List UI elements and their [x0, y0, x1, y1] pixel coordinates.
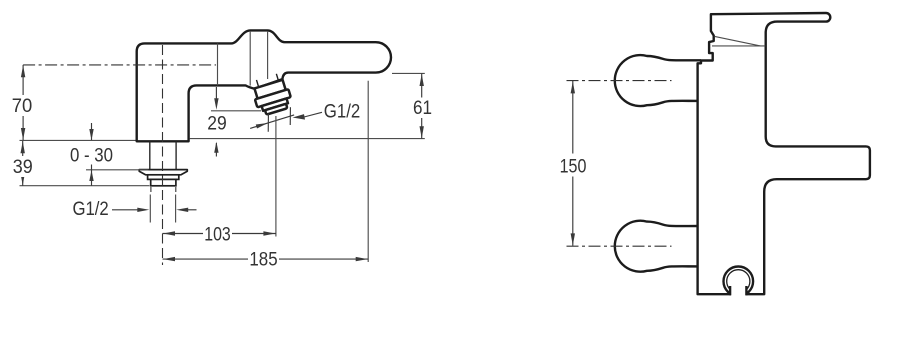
svg-text:29: 29 — [207, 113, 227, 135]
svg-text:G1/2: G1/2 — [72, 198, 108, 220]
svg-text:61: 61 — [413, 97, 432, 119]
svg-text:70: 70 — [12, 95, 33, 117]
svg-text:G1/2: G1/2 — [324, 101, 361, 123]
svg-text:150: 150 — [560, 155, 587, 177]
svg-text:39: 39 — [13, 156, 33, 178]
svg-text:185: 185 — [249, 249, 277, 271]
svg-text:0 - 30: 0 - 30 — [70, 144, 113, 166]
svg-text:103: 103 — [204, 224, 231, 246]
